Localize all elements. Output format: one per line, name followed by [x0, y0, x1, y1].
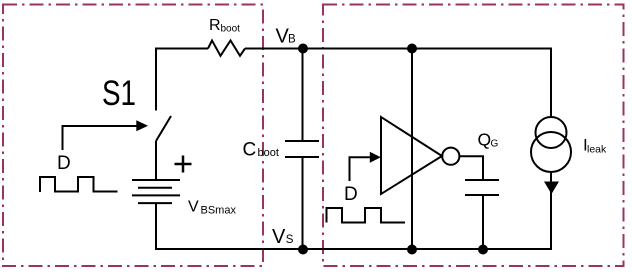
svg-text:BSmax: BSmax [201, 205, 237, 217]
svg-text:G: G [491, 139, 499, 150]
svg-text:C: C [243, 140, 257, 161]
svg-text:V: V [188, 199, 199, 216]
svg-text:S1: S1 [102, 74, 136, 113]
svg-text:V: V [272, 226, 286, 248]
svg-text:Q: Q [478, 130, 492, 150]
svg-text:D: D [344, 184, 358, 205]
svg-text:leak: leak [587, 144, 607, 156]
svg-text:S: S [286, 234, 294, 246]
svg-text:boot: boot [258, 147, 279, 159]
svg-text:R: R [209, 17, 221, 34]
svg-text:B: B [288, 34, 296, 46]
svg-text:boot: boot [221, 24, 241, 35]
svg-text:D: D [57, 153, 71, 174]
